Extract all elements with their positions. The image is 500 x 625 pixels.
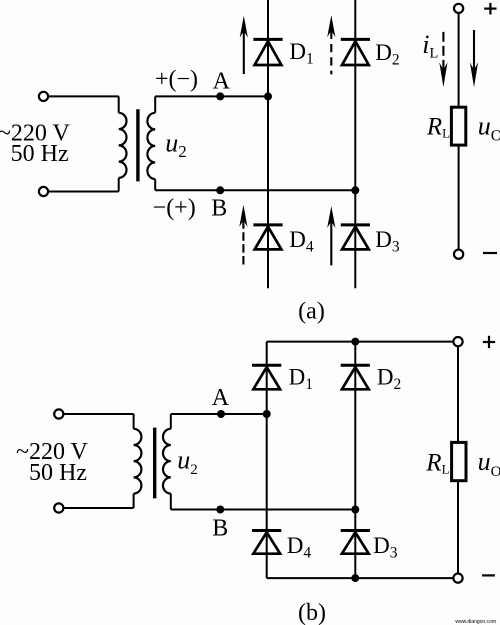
svg-text:RL: RL <box>425 450 449 477</box>
svg-text:B: B <box>211 196 227 222</box>
svg-text:B: B <box>212 516 228 542</box>
svg-text:D2: D2 <box>375 40 399 69</box>
svg-text:D3: D3 <box>373 533 398 562</box>
svg-text:RL: RL <box>426 113 450 140</box>
svg-text:A: A <box>213 69 231 95</box>
svg-text:(a): (a) <box>298 299 325 325</box>
svg-text:D2: D2 <box>377 364 401 393</box>
svg-text:+(−): +(−) <box>155 67 198 93</box>
svg-text:uO: uO <box>478 447 500 480</box>
svg-text:50 Hz: 50 Hz <box>29 460 87 486</box>
svg-text:D1: D1 <box>289 39 313 67</box>
svg-text:50 Hz: 50 Hz <box>11 141 69 167</box>
svg-text:−(+): −(+) <box>153 195 196 221</box>
svg-text:D1: D1 <box>289 364 313 393</box>
svg-text:A: A <box>212 385 230 411</box>
svg-text:(b): (b) <box>298 600 326 625</box>
svg-text:u2: u2 <box>177 446 198 478</box>
svg-text:u2: u2 <box>165 128 187 161</box>
svg-text:D3: D3 <box>375 227 400 256</box>
svg-text:www.diangon.com: www.diangon.com <box>455 619 496 625</box>
svg-text:uO: uO <box>478 111 500 144</box>
svg-text:D4: D4 <box>287 533 312 562</box>
svg-text:D4: D4 <box>289 227 314 256</box>
svg-text:iL: iL <box>422 30 438 62</box>
